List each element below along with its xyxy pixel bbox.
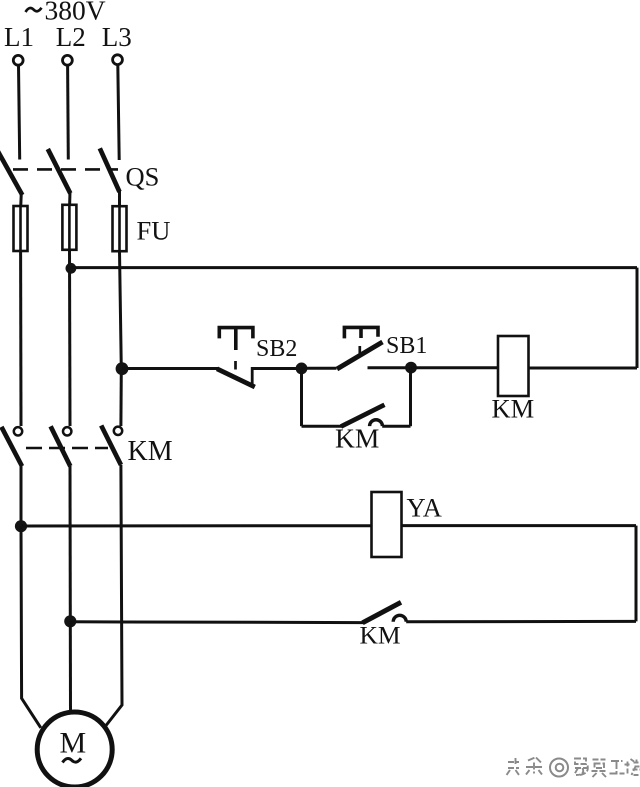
junction dot L1 YA tap <box>15 520 27 532</box>
wire QS pole2 to fuse FU2 <box>68 192 71 207</box>
switch QS pole 2 blade <box>48 149 71 193</box>
SB2 linkage dash <box>234 361 237 370</box>
junction dot L2 bottom tap <box>64 615 76 627</box>
pushbutton SB1 cap <box>344 327 378 338</box>
SB1 NO blade <box>337 342 383 369</box>
contactor KM pole2 fixed contact circle <box>63 427 71 435</box>
svg-text:L1: L1 <box>4 22 34 52</box>
wire L1 to motor <box>21 526 41 728</box>
svg-text:SB2: SB2 <box>256 336 297 362</box>
svg-text:KM: KM <box>128 436 173 467</box>
fuse FU2 <box>62 205 76 250</box>
contact KM bottom blade <box>363 602 402 623</box>
terminal circle L3 <box>113 55 123 65</box>
wire KM coil to right bus <box>529 367 638 370</box>
wire L3 terminal to QS <box>118 64 119 160</box>
fuse FU1 <box>14 206 28 251</box>
svg-text:QS: QS <box>126 162 160 192</box>
wire SB2 to node A <box>252 367 302 370</box>
wire L3 tap to SB2 <box>122 367 218 370</box>
wire SB1 to node B <box>368 366 412 369</box>
terminal circle L1 <box>13 55 23 65</box>
wire right side vertical (KM coil loop) <box>636 268 639 368</box>
switch QS pole 3 blade <box>100 148 120 192</box>
watermark @ <box>550 759 568 777</box>
junction node A <box>296 363 308 375</box>
wire L2 to motor <box>69 622 72 713</box>
wire L2 terminal to QS <box>66 65 70 160</box>
watermark 易卖工控 <box>574 759 640 778</box>
switch QS pole 1 blade <box>0 152 22 196</box>
svg-text:KM: KM <box>335 423 379 454</box>
wire KM bottom contact to L2 junction <box>70 620 363 624</box>
wire right to KM bottom contact <box>406 620 636 623</box>
contact KM bottom fixed arc <box>393 615 406 622</box>
SB1 linkage dash <box>358 346 361 355</box>
wire top control bus <box>71 266 637 269</box>
wire node A down (self hold) <box>300 368 303 426</box>
wire KM pole1 to YA junction <box>20 466 23 527</box>
pushbutton SB2 cap <box>219 328 253 350</box>
coil YA <box>372 492 402 557</box>
wire QS pole3 to fuse FU3 <box>118 190 121 207</box>
contactor KM pole2 blade <box>51 426 71 466</box>
SB2 right fixed terminal tick <box>251 367 254 384</box>
junction node B <box>405 362 417 374</box>
KM main linkage dashed line <box>26 447 108 450</box>
watermark 头条 <box>507 757 543 775</box>
contactor KM pole3 fixed contact circle <box>114 427 122 435</box>
svg-text:SB1: SB1 <box>386 333 427 359</box>
svg-text:M: M <box>60 727 87 760</box>
terminal circle L2 <box>63 55 73 65</box>
wire node B down <box>409 368 412 427</box>
junction dot L3 control tap <box>116 362 129 375</box>
wire node B to KM coil <box>411 366 498 369</box>
wire to KM aux blade <box>302 425 343 428</box>
contact KM aux fixed arc <box>370 420 383 426</box>
motor M circle <box>37 712 112 787</box>
wire right side vertical (YA loop) <box>635 526 638 622</box>
wire L1 junction to YA coil <box>21 524 372 527</box>
svg-text:KM: KM <box>492 394 535 424</box>
wire KM aux to node B <box>382 425 410 428</box>
wire FU1 to KM pole1 <box>19 251 22 426</box>
contactor KM pole3 blade <box>101 426 121 465</box>
wire FU2 to KM pole2 <box>68 250 72 426</box>
fuse FU3 <box>113 206 127 251</box>
wire QS pole1 to fuse FU1 <box>19 193 23 207</box>
wire KM pole2 to bottom junction <box>69 466 72 622</box>
svg-text:L3: L3 <box>102 22 132 52</box>
label ~380V <box>26 0 106 26</box>
wire L3 control section <box>119 369 122 426</box>
contactor KM pole1 blade <box>1 427 22 466</box>
SB2 NC blade <box>217 369 255 387</box>
svg-text:FU: FU <box>137 216 171 246</box>
svg-text:YA: YA <box>407 493 442 523</box>
QS linkage dashed line <box>13 168 118 171</box>
wire L1 terminal to QS <box>19 65 20 160</box>
svg-text:KM: KM <box>360 621 401 650</box>
wire YA coil to right <box>402 524 637 527</box>
wire FU3 to KM pole3 <box>120 251 122 369</box>
contact KM aux blade <box>341 405 385 427</box>
junction dot FU2 control tap <box>66 263 77 274</box>
coil KM <box>498 336 529 396</box>
svg-text:L2: L2 <box>56 22 86 52</box>
motor tilde <box>63 758 82 762</box>
wire node A to SB1 <box>302 367 337 370</box>
contactor KM pole1 fixed contact circle <box>14 427 22 435</box>
wire L3 to motor <box>106 465 122 726</box>
